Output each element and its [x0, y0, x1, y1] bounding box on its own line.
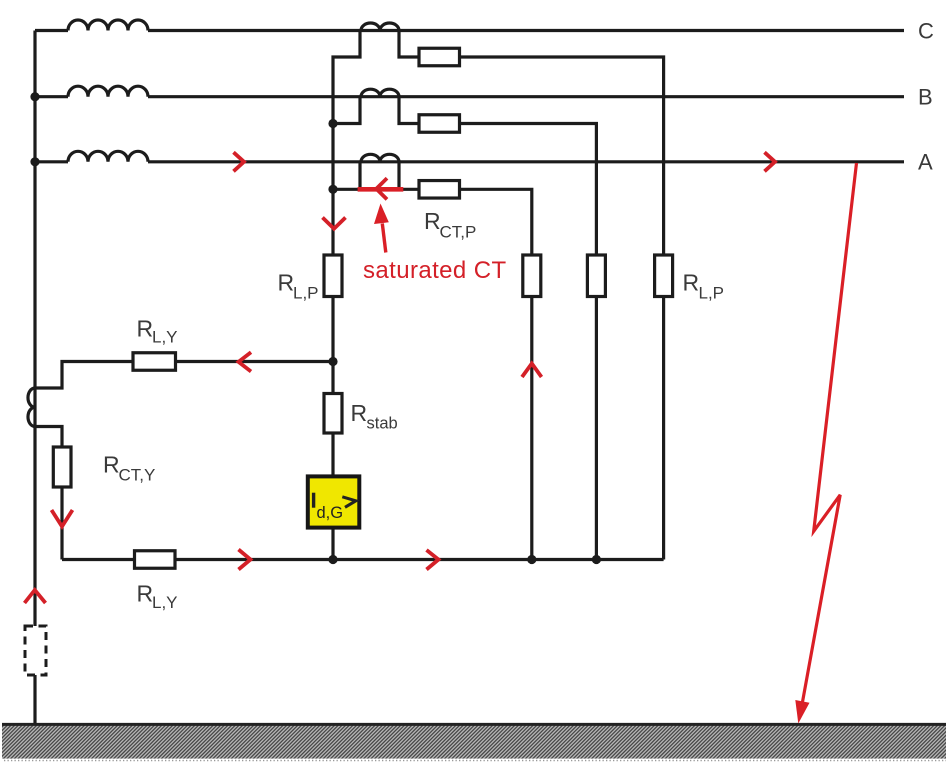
- svg-text:R: R: [683, 270, 700, 296]
- svg-text:L,P: L,P: [699, 284, 725, 303]
- svg-text:R: R: [137, 581, 154, 607]
- svg-text:d,G: d,G: [317, 504, 344, 522]
- svg-text:C: C: [918, 18, 934, 43]
- svg-text:saturated CT: saturated CT: [363, 257, 507, 284]
- svg-text:R: R: [103, 452, 120, 478]
- svg-text:L,Y: L,Y: [152, 593, 178, 612]
- svg-text:L,Y: L,Y: [152, 328, 178, 347]
- svg-text:CT,P: CT,P: [440, 223, 477, 242]
- svg-text:L,P: L,P: [293, 284, 319, 303]
- svg-text:R: R: [424, 208, 441, 234]
- svg-text:R: R: [278, 270, 295, 296]
- svg-text:stab: stab: [367, 415, 398, 433]
- svg-text:R: R: [351, 400, 368, 426]
- svg-text:A: A: [918, 150, 933, 175]
- svg-text:B: B: [918, 84, 933, 109]
- svg-text:R: R: [137, 316, 154, 342]
- svg-text:CT,Y: CT,Y: [119, 466, 156, 485]
